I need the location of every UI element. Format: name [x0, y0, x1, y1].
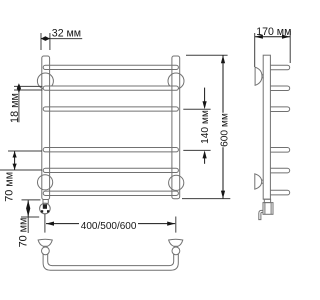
side stub 4: [270, 148, 289, 153]
mounting circle LR: [169, 175, 184, 190]
dim 70mm lower double arrow: [27, 200, 29, 216]
dim 600mm ext line bottom: [182, 198, 230, 200]
dim 140mm lower arrow (points up): [204, 154, 206, 164]
svg-text:600 мм: 600 мм: [219, 113, 230, 147]
dim 70mm lower tail down: [27, 217, 29, 233]
svg-text:140 мм: 140 мм: [200, 110, 211, 144]
side heater cable: [259, 210, 263, 219]
dim 170mm ext line left (wall): [254, 33, 256, 67]
dim 400/500/600 ext line left (from plug): [44, 214, 46, 233]
svg-text:170 мм: 170 мм: [256, 26, 291, 38]
side stub 2: [270, 86, 289, 91]
side stub 5: [270, 168, 289, 173]
dim 170mm line + arrows: [255, 36, 290, 38]
dim 70mm lower ext lines: [21, 200, 41, 217]
side bracket lower: [255, 174, 262, 189]
dim 400/500/600 line left + arrow: [46, 223, 79, 225]
dim 600mm line lower + arrow down: [222, 147, 224, 198]
side bracket upper stem: [262, 75, 264, 78]
svg-text:18 мм: 18 мм: [9, 93, 21, 123]
dim 400/500/600 ext line right: [175, 217, 177, 233]
dim 140mm ext lines: [183, 109, 210, 150]
side heater body inner walls: [265, 203, 271, 215]
right riser tube: [172, 56, 180, 199]
dim 18mm bowtie arrow: [17, 83, 21, 93]
heater plug circle: [40, 203, 51, 214]
dim 600mm line upper + arrow up: [222, 55, 224, 113]
dim 18mm tail down: [18, 90, 20, 122]
svg-text:70 мм: 70 мм: [3, 172, 15, 202]
bottom detail: towel bar inner contour: [48, 254, 174, 266]
bottom detail: right ball: [172, 247, 180, 255]
dim 600mm ext line top: [186, 54, 228, 56]
bar 2: [43, 86, 178, 90]
plug contact left: [41, 210, 43, 212]
dim 32mm double arrow: [41, 38, 50, 40]
bar 3: [43, 107, 178, 111]
dim 70mm upper ext lines: [0, 151, 42, 170]
dim 32mm ext line left: [40, 33, 42, 50]
dim 70mm upper double arrow: [14, 151, 16, 170]
mounting circle UL: [37, 73, 53, 89]
svg-text:70 мм: 70 мм: [17, 218, 29, 248]
side stub 6: [270, 190, 289, 195]
side stub 3: [270, 107, 289, 112]
bottom detail: left ball: [42, 247, 50, 255]
bottom detail: left bracket dome: [38, 239, 52, 248]
mounting circle LL: [38, 175, 53, 190]
bottom detail: right bracket dome: [169, 239, 183, 248]
mounting circle UR: [168, 73, 184, 89]
side heater neck: [264, 199, 270, 202]
bar 6: [43, 191, 178, 195]
plug contact top: [43, 204, 47, 209]
dim 18mm ext lines: [14, 86, 43, 90]
bar 5: [43, 168, 178, 172]
side stub 1: [270, 65, 289, 70]
bar 1: [43, 65, 178, 69]
side heater body: [263, 203, 273, 215]
side view tube: [263, 55, 270, 199]
plug contact right: [47, 210, 49, 212]
svg-text:32 мм: 32 мм: [52, 28, 81, 40]
dim 32mm ext line right: [49, 33, 51, 50]
side bracket upper: [255, 67, 262, 85]
bottom detail: towel bar outer contour: [43, 254, 178, 271]
bar 4: [43, 148, 178, 152]
dim 140mm upper arrow (points down): [204, 88, 206, 106]
dim 32mm tail: [50, 38, 82, 40]
heater neck below left tube: [43, 200, 48, 204]
side bracket lower stem: [261, 180, 263, 183]
dim 170mm ext line right: [289, 31, 291, 63]
left riser tube: [42, 56, 50, 200]
dim 400/500/600 line right + arrow: [138, 223, 175, 225]
svg-text:400/500/600: 400/500/600: [81, 221, 137, 232]
